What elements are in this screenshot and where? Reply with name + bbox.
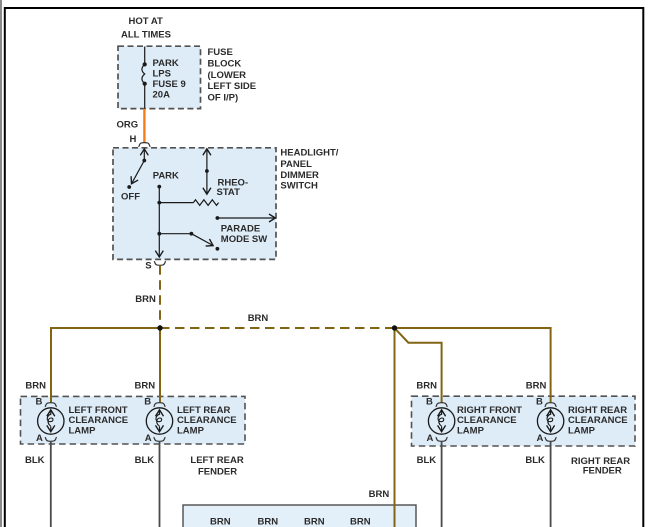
svg-text:LAMP: LAMP <box>568 426 596 437</box>
svg-text:LAMP: LAMP <box>69 426 97 437</box>
svg-text:PANEL: PANEL <box>280 159 312 170</box>
svg-text:BLK: BLK <box>525 455 545 466</box>
svg-text:FENDER: FENDER <box>198 466 237 477</box>
svg-text:A: A <box>537 433 544 444</box>
svg-text:LEFT FRONT: LEFT FRONT <box>69 405 128 416</box>
svg-text:BRN: BRN <box>350 517 371 527</box>
svg-text:B: B <box>36 397 43 408</box>
svg-text:BLK: BLK <box>25 455 45 466</box>
svg-text:PARK: PARK <box>153 58 179 69</box>
svg-text:B: B <box>536 397 543 408</box>
svg-text:FUSE 9: FUSE 9 <box>153 79 186 90</box>
svg-text:ALL TIMES: ALL TIMES <box>121 30 171 41</box>
svg-text:S: S <box>145 260 151 271</box>
svg-text:PARADE: PARADE <box>221 223 260 234</box>
svg-text:BRN: BRN <box>304 517 325 527</box>
svg-text:OFF: OFF <box>121 192 140 203</box>
svg-text:BRN: BRN <box>135 294 156 305</box>
svg-text:BLK: BLK <box>417 455 437 466</box>
svg-text:LEFT SIDE: LEFT SIDE <box>208 81 257 92</box>
svg-text:LAMP: LAMP <box>457 426 485 437</box>
svg-text:LEFT REAR: LEFT REAR <box>177 405 230 416</box>
svg-text:BRN: BRN <box>210 517 231 527</box>
svg-text:STAT: STAT <box>217 187 241 198</box>
svg-text:MODE SW: MODE SW <box>221 234 267 245</box>
svg-text:LEFT REAR: LEFT REAR <box>190 455 243 466</box>
svg-text:FENDER: FENDER <box>583 466 622 477</box>
svg-text:BRN: BRN <box>135 381 156 392</box>
svg-text:A: A <box>427 433 434 444</box>
svg-text:BRN: BRN <box>416 381 437 392</box>
svg-text:OF I/P): OF I/P) <box>208 93 239 104</box>
svg-text:BRN: BRN <box>248 313 269 324</box>
svg-text:BRN: BRN <box>369 489 390 500</box>
svg-text:HEADLIGHT/: HEADLIGHT/ <box>280 147 338 158</box>
svg-text:A: A <box>36 433 43 444</box>
svg-text:LPS: LPS <box>153 69 171 80</box>
svg-text:BRN: BRN <box>258 517 279 527</box>
svg-text:BRN: BRN <box>526 381 547 392</box>
svg-text:B: B <box>144 397 151 408</box>
svg-text:LAMP: LAMP <box>177 426 205 437</box>
svg-text:20A: 20A <box>153 90 171 101</box>
svg-text:FUSE: FUSE <box>208 47 233 58</box>
svg-text:ORG: ORG <box>117 120 139 131</box>
svg-text:BLOCK: BLOCK <box>208 58 242 69</box>
svg-text:PARK: PARK <box>153 170 179 181</box>
svg-text:SWITCH: SWITCH <box>280 181 318 192</box>
svg-text:B: B <box>426 397 433 408</box>
svg-text:RIGHT FRONT: RIGHT FRONT <box>457 405 522 416</box>
svg-text:BLK: BLK <box>135 455 155 466</box>
svg-text:A: A <box>145 433 152 444</box>
svg-text:H: H <box>130 134 137 145</box>
svg-text:RIGHT REAR: RIGHT REAR <box>568 405 627 416</box>
svg-text:HOT AT: HOT AT <box>129 16 163 27</box>
svg-text:BRN: BRN <box>25 381 46 392</box>
svg-text:(LOWER: (LOWER <box>208 70 247 81</box>
svg-text:DIMMER: DIMMER <box>280 170 319 181</box>
